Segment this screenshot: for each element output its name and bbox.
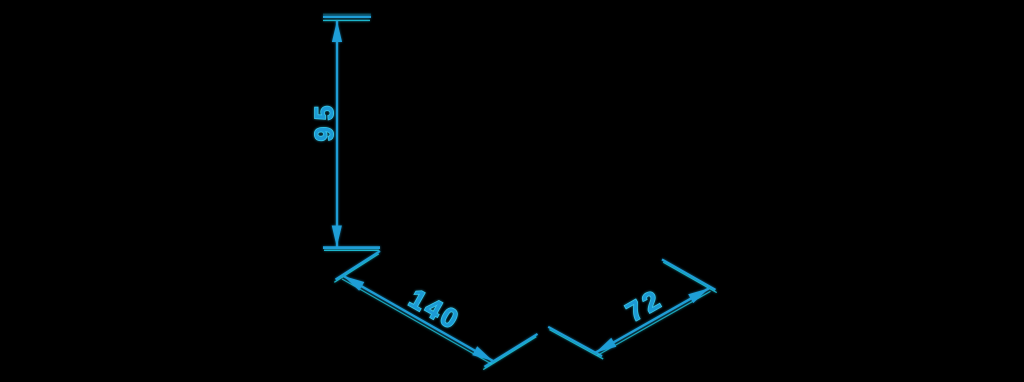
dimension 95 : bottom extension line (323, 248, 380, 251)
dimension 140 : upper-left extension line (334, 251, 380, 282)
dimension 72 : dimension line (596, 288, 711, 355)
dimension 140 : lower arrowhead (472, 346, 493, 361)
dimension 140 : lower-right extension line (483, 334, 537, 370)
dimension 72 : left arrowhead (596, 338, 617, 353)
dimension 140 : dimension line (342, 276, 493, 364)
dimension 95 : vertical dimension line (336, 21, 338, 248)
dimension 140 : upper arrowhead (344, 276, 365, 291)
dimension 95 : top extension line (323, 14, 371, 20)
dimension 72 : right arrowhead (688, 288, 709, 303)
svg-text:95: 95 (309, 99, 339, 141)
dimension 95 : top arrowhead (332, 21, 342, 43)
dimension 72 : right extension line (662, 259, 717, 292)
dimension 72 : left extension line (548, 327, 603, 359)
glow underlay (soft copy of the whole dimension drawing) (309, 14, 717, 369)
dimension 95 : bottom arrowhead (332, 226, 342, 248)
